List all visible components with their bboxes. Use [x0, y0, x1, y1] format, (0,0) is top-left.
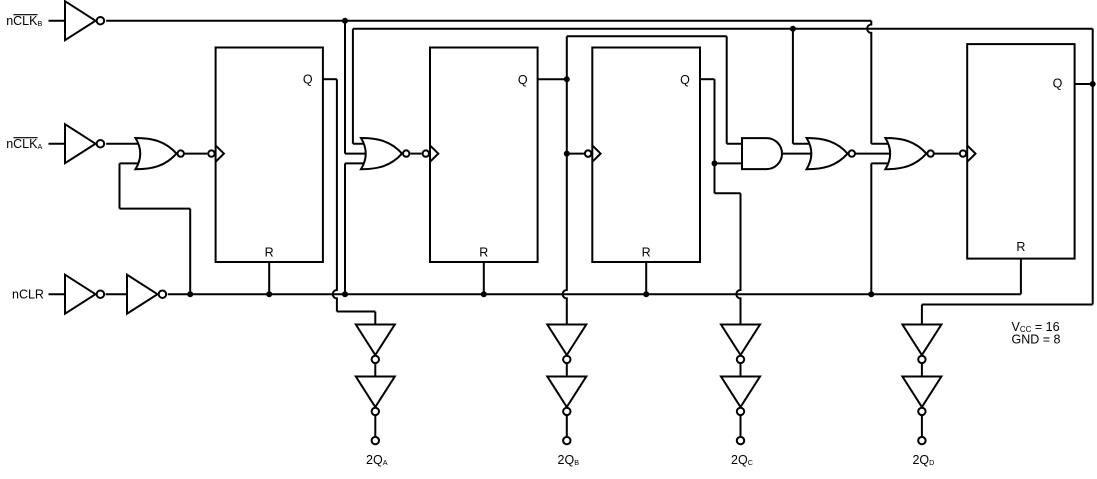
svg-text:GND = 8: GND = 8: [1012, 333, 1061, 347]
svg-text:Q: Q: [680, 73, 690, 87]
svg-text:Q: Q: [303, 72, 313, 86]
svg-text:Q: Q: [518, 73, 528, 87]
svg-text:nCLR: nCLR: [12, 288, 44, 302]
svg-text:nCLKA: nCLKA: [6, 137, 42, 151]
svg-text:nCLKB: nCLKB: [6, 14, 42, 28]
svg-text:R: R: [265, 246, 274, 260]
svg-text:R: R: [1016, 240, 1025, 254]
svg-text:Q: Q: [1053, 76, 1063, 90]
svg-text:R: R: [479, 246, 488, 260]
svg-text:R: R: [642, 246, 651, 260]
